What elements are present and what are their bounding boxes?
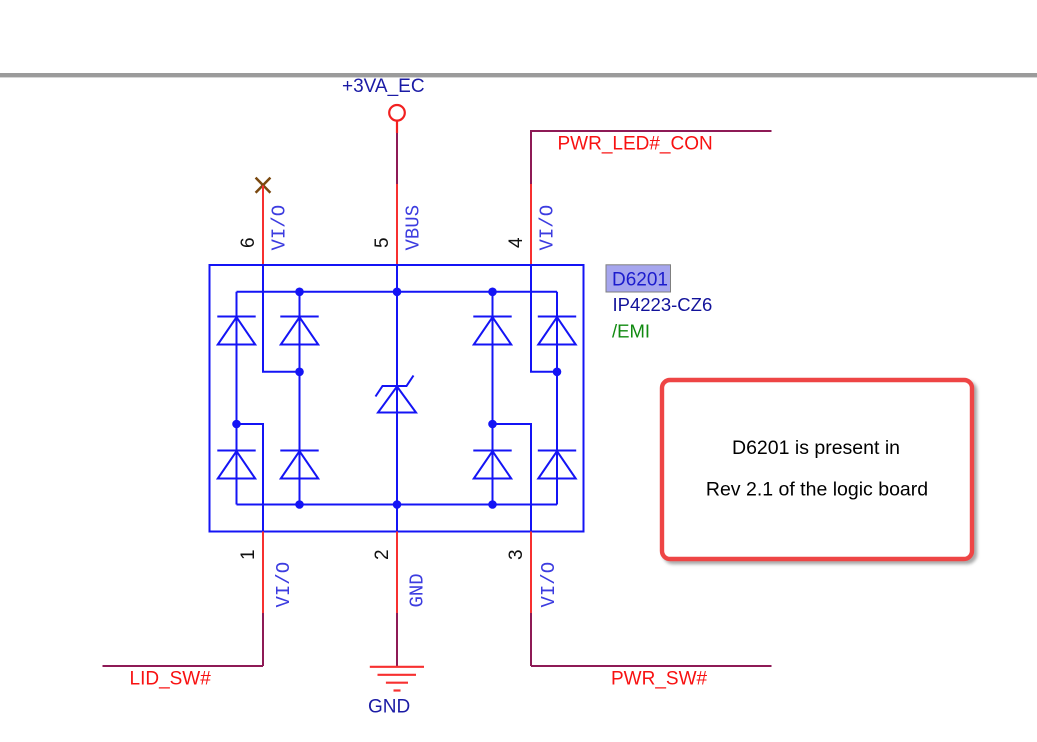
svg-text:VI/O: VI/O: [537, 205, 559, 251]
junction dot pin3 tap column C: [488, 420, 497, 429]
wire net LID_SW# vertical: [262, 613, 264, 666]
svg-text:D6201 is present in: D6201 is present in: [732, 437, 900, 459]
svg-text:1: 1: [238, 549, 259, 560]
diode D6201-D top (column D upper): [538, 317, 576, 345]
svg-text:PWR_LED#_CON: PWR_LED#_CON: [558, 134, 713, 155]
svg-text:4: 4: [506, 237, 527, 248]
svg-text:3: 3: [506, 549, 527, 560]
svg-text:6: 6: [238, 237, 259, 248]
diode D6201-C top (column C upper): [473, 317, 511, 345]
svg-text:LID_SW#: LID_SW#: [130, 669, 212, 690]
page separator bar: [0, 73, 1037, 77]
svg-text:VI/O: VI/O: [538, 562, 560, 608]
wire pin 6 internal: [263, 265, 300, 372]
reference designator D6201 highlight: [606, 265, 671, 292]
wire column A: [236, 292, 238, 505]
svg-text:2: 2: [372, 549, 393, 560]
wire pin 5 internal stub: [396, 265, 398, 292]
pin 5 stub: [396, 184, 398, 265]
pin 4 stub: [530, 184, 532, 265]
junction dot pin6 tap column B: [295, 368, 304, 377]
wire pin 1 internal: [237, 424, 264, 532]
annotation note box: [662, 380, 972, 559]
wire GND bottom bus: [237, 504, 558, 506]
diode D6201-D bottom (column D lower): [538, 451, 576, 479]
wire net GND vertical: [396, 613, 398, 666]
diode D6201-A top (column A upper): [217, 317, 255, 345]
pin 1 stub: [262, 532, 264, 614]
wire pin 2 internal stub: [396, 505, 398, 532]
power symbol +3VA_EC circle: [389, 105, 405, 133]
wire column C: [492, 292, 494, 505]
svg-text:VI/O: VI/O: [269, 205, 291, 251]
diode D6201-B bottom (column B lower): [280, 451, 318, 479]
junction dot pin1 tap column A: [232, 420, 241, 429]
wire net PWR_SW# horizontal: [531, 665, 772, 667]
wire column B: [299, 292, 301, 505]
wire column D: [556, 292, 558, 505]
wire net +3VA_EC to pin 5: [396, 133, 398, 184]
svg-text:GND: GND: [407, 573, 429, 607]
diode D6201-C bottom (column C lower): [473, 451, 511, 479]
svg-text:PWR_SW#: PWR_SW#: [611, 669, 708, 690]
diode D6201-A bottom (column A lower): [217, 451, 255, 479]
svg-text:5: 5: [372, 237, 393, 248]
diode array D6201 body outline: [210, 265, 584, 532]
pin 6 stub: [262, 186, 264, 266]
junction dot top bus B: [295, 288, 304, 297]
junction dot bottom bus C: [488, 500, 497, 509]
junction dot pin4 tap column D: [553, 368, 562, 377]
svg-text:VI/O: VI/O: [273, 562, 295, 608]
svg-text:Rev 2.1 of the logic board: Rev 2.1 of the logic board: [706, 478, 928, 500]
wire net PWR_SW# vertical: [530, 613, 532, 666]
svg-text:/EMI: /EMI: [612, 321, 650, 342]
junction dot top bus center: [393, 288, 402, 297]
zener diode center: [376, 376, 417, 413]
diode D6201-B top (column B upper): [280, 317, 318, 345]
junction dot top bus C: [488, 288, 497, 297]
wire pin 3 internal: [493, 424, 532, 532]
junction dot bottom bus B: [295, 500, 304, 509]
wire net PWR_LED#_CON: [531, 131, 772, 184]
svg-text:D6201: D6201: [612, 270, 668, 291]
pin 3 stub: [530, 532, 532, 614]
wire net LID_SW# horizontal: [103, 665, 264, 667]
wire VBUS top bus: [237, 291, 558, 293]
svg-text:GND: GND: [368, 696, 410, 717]
pin 2 stub: [396, 532, 398, 614]
ground symbol GND: [370, 667, 424, 691]
wire zener column: [396, 292, 398, 505]
no-connect X on pin 6: [256, 178, 271, 193]
svg-text:VBUS: VBUS: [403, 205, 425, 251]
svg-text:IP4223-CZ6: IP4223-CZ6: [613, 294, 713, 315]
junction dot bottom bus center: [393, 500, 402, 509]
wire pin 4 internal: [531, 265, 557, 372]
svg-text:+3VA_EC: +3VA_EC: [342, 76, 425, 97]
